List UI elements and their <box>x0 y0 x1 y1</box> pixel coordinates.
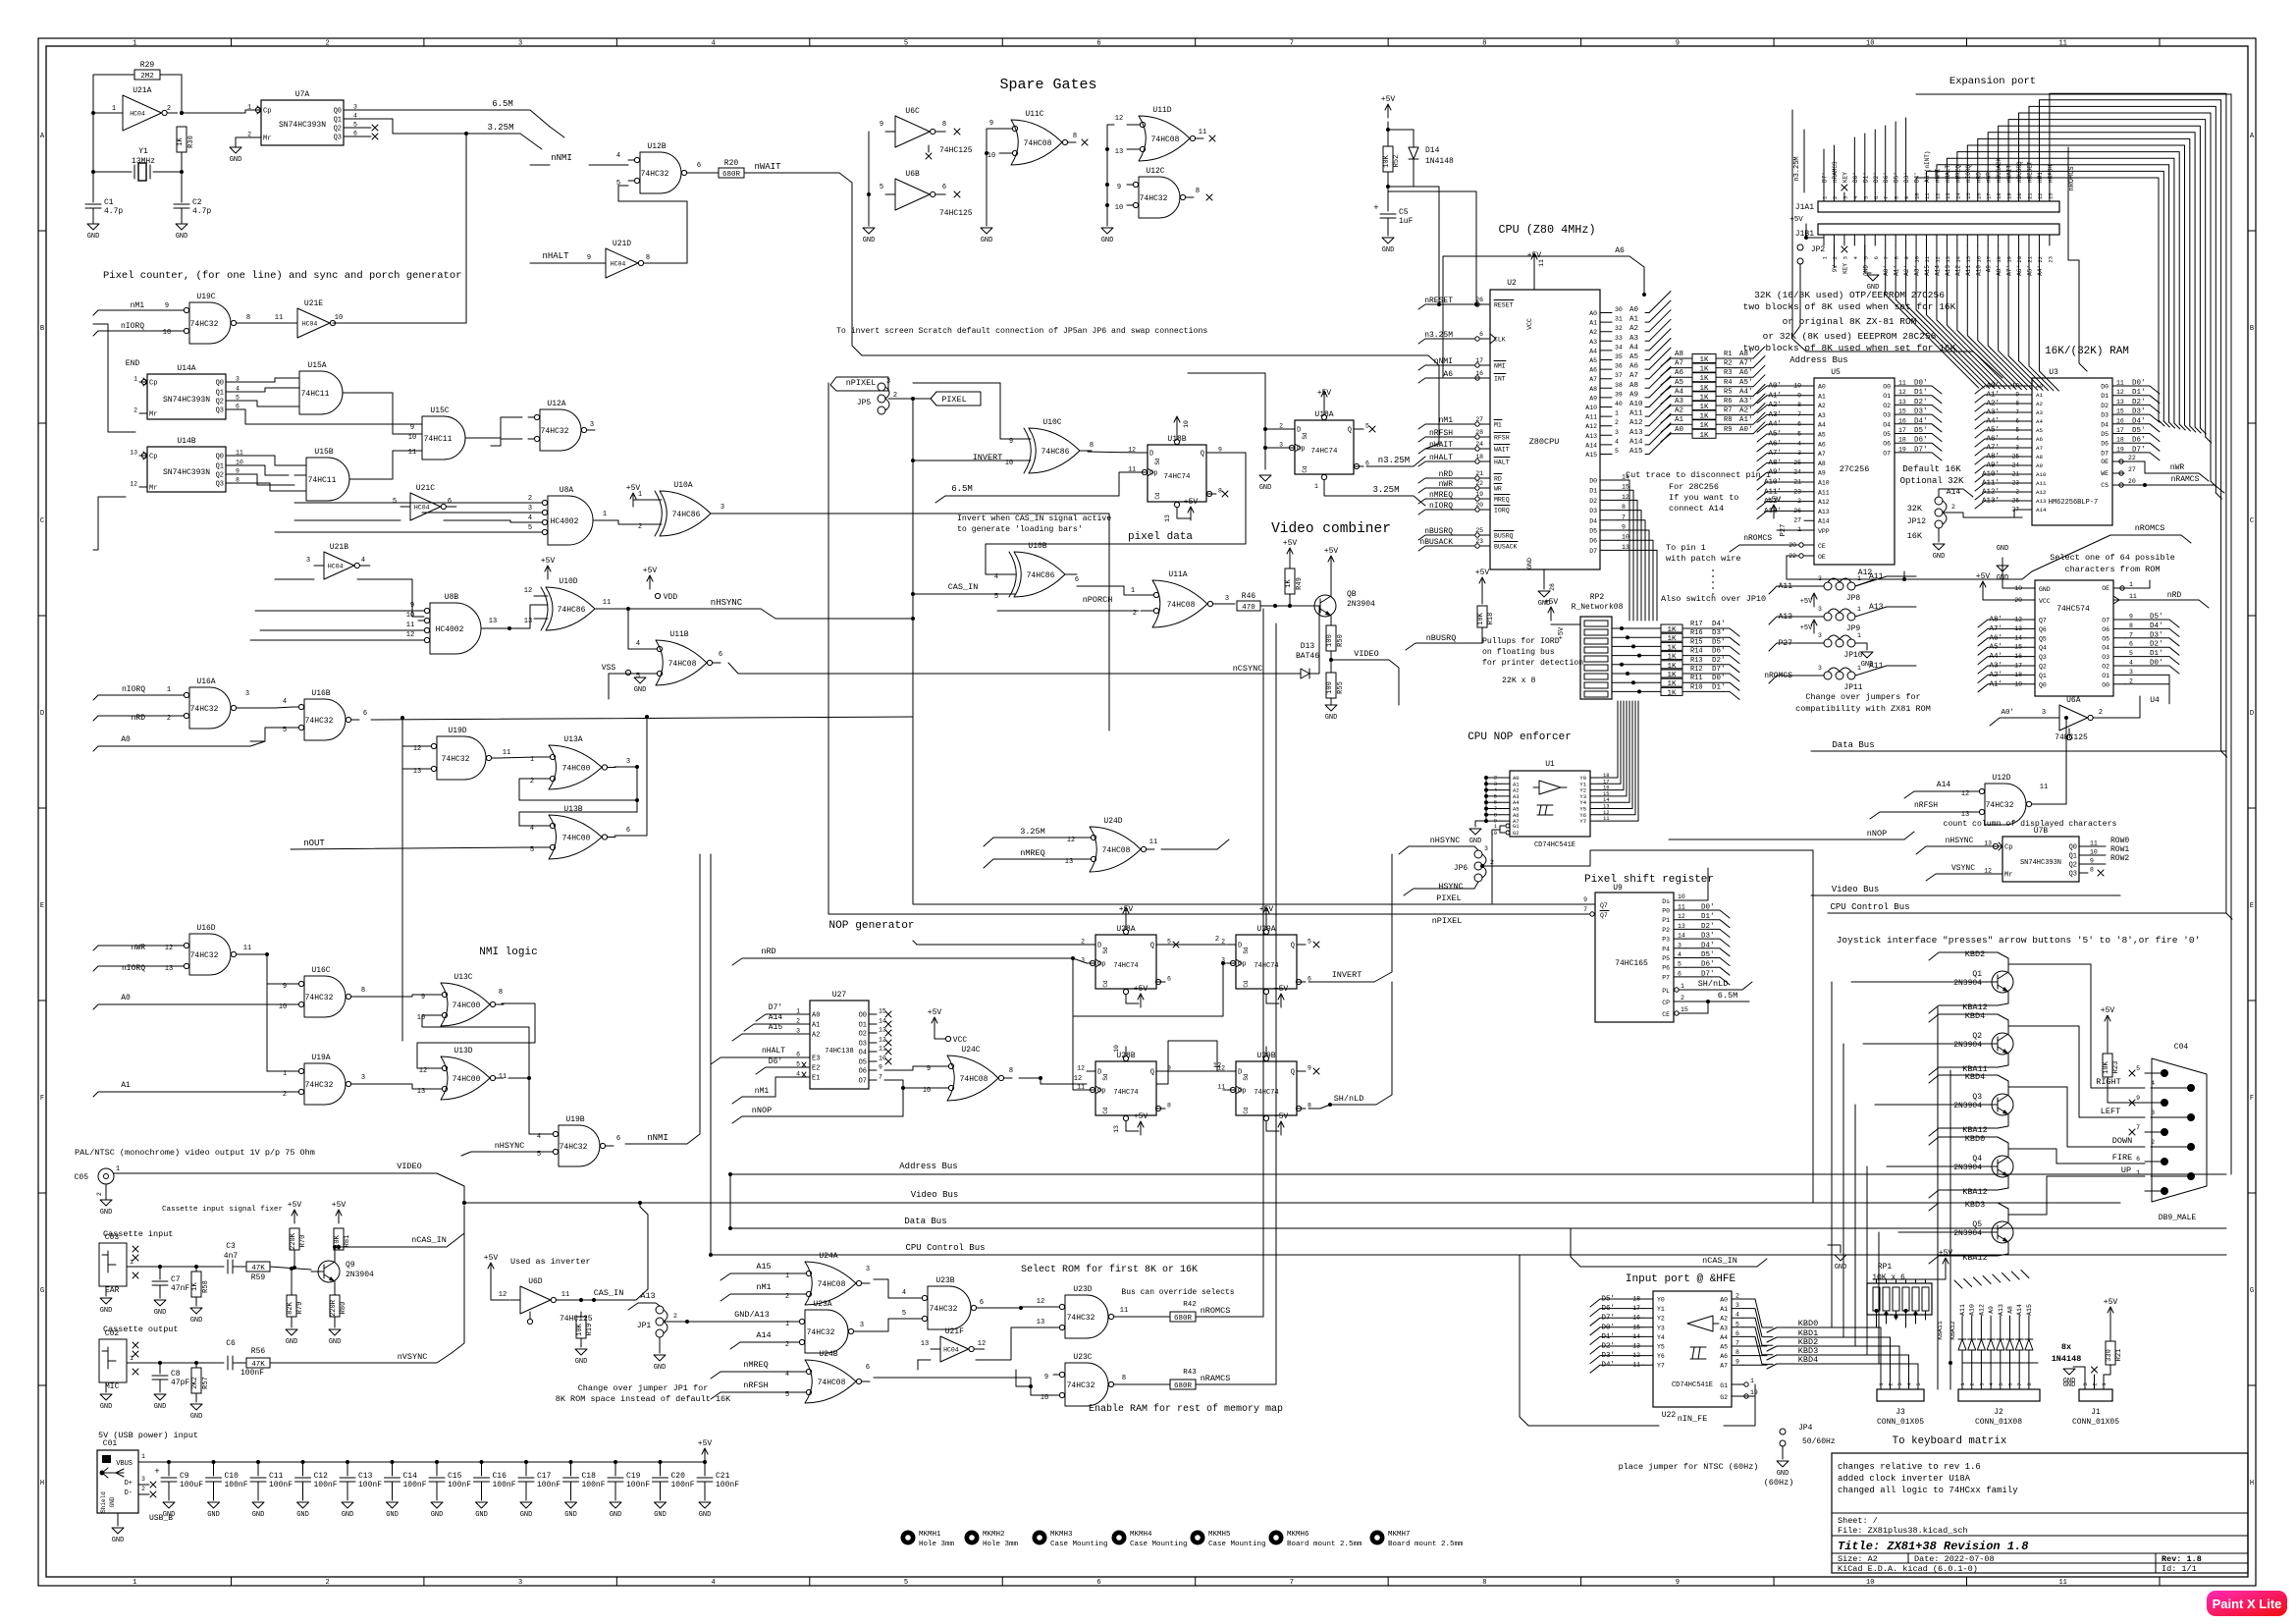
svg-text:Pixel shift register: Pixel shift register <box>1584 874 1714 886</box>
svg-text:74HC32: 74HC32 <box>541 427 569 436</box>
svg-text:Q1: Q1 <box>216 463 224 471</box>
connector C05 <box>98 1168 114 1184</box>
svg-text:6: 6 <box>448 498 452 506</box>
svg-text:U10C: U10C <box>1042 418 1061 427</box>
svg-text:1: 1 <box>1857 606 1861 613</box>
buffer U6A <box>2059 705 2088 731</box>
svg-text:3: 3 <box>866 1266 870 1273</box>
capacitor C13 <box>346 1460 349 1464</box>
svg-text:1K: 1K <box>1699 432 1709 440</box>
svg-text:A2: A2 <box>1720 1316 1728 1323</box>
U3 pin A0 <box>2022 385 2032 387</box>
U3 pin D3 <box>2112 413 2124 415</box>
svg-text:A6: A6 <box>1675 369 1684 377</box>
svg-text:HC04: HC04 <box>414 505 430 512</box>
svg-text:11: 11 <box>2090 840 2098 847</box>
U1 pin Y3 <box>1590 795 1600 797</box>
svg-text:19: 19 <box>1750 1389 1758 1396</box>
svg-text:CLK: CLK <box>1494 337 1506 344</box>
svg-text:U12A: U12A <box>547 400 565 408</box>
wire nHSYNC <box>605 608 687 610</box>
ground <box>863 228 875 234</box>
wires RP1 to J3 <box>1876 1311 1878 1327</box>
svg-text:Cp: Cp <box>263 108 271 116</box>
svg-text:OE: OE <box>1818 554 1826 561</box>
svg-text:O2: O2 <box>859 1031 867 1039</box>
svg-text:U24A: U24A <box>819 1252 837 1261</box>
svg-text:Q7: Q7 <box>2039 618 2047 624</box>
svg-text:P27: P27 <box>1780 524 1788 537</box>
svg-text:27C256: 27C256 <box>1840 464 1870 474</box>
wire <box>465 134 467 323</box>
wire nCSYNC <box>728 663 1217 674</box>
svg-text:23: 23 <box>2047 256 2054 263</box>
wire <box>1107 125 1114 226</box>
Z80 pin D0 <box>1600 479 1618 481</box>
svg-text:+5V: +5V <box>1767 496 1782 505</box>
U4 pin O4 <box>2113 646 2125 648</box>
svg-text:14: 14 <box>1678 933 1685 940</box>
J1A pin 21 <box>2028 192 2030 201</box>
svg-text:12: 12 <box>1898 389 1906 396</box>
svg-text:1: 1 <box>247 104 251 111</box>
svg-text:13: 13 <box>1622 544 1629 551</box>
power +5V <box>1263 929 1268 934</box>
svg-text:3: 3 <box>796 1028 800 1035</box>
Z80 pin A12 <box>1600 425 1612 427</box>
svg-text:6: 6 <box>719 651 722 659</box>
svg-text:A12: A12 <box>1858 568 1873 577</box>
resistor R7 <box>1692 410 1716 419</box>
svg-text:nMREQ: nMREQ <box>1954 165 1961 183</box>
svg-text:A11: A11 <box>1959 1304 1966 1316</box>
svg-text:+5V: +5V <box>1800 624 1813 632</box>
svg-text:H: H <box>2250 1480 2254 1488</box>
svg-text:A3: A3 <box>1589 339 1597 346</box>
Z80 pin A5 <box>1600 359 1612 361</box>
svg-text:2: 2 <box>1221 939 1225 946</box>
Z80 pin NMI <box>1480 364 1490 366</box>
svg-text:12: 12 <box>1077 1065 1085 1072</box>
svg-text:2: 2 <box>1888 1382 1895 1385</box>
svg-text:33: 33 <box>1615 335 1623 342</box>
or-gate U12D <box>1985 784 2026 825</box>
or-gate U19C <box>189 302 231 344</box>
svg-text:9: 9 <box>1903 196 1910 199</box>
svg-text:A1: A1 <box>1589 320 1597 327</box>
svg-text:A7: A7 <box>1720 1363 1728 1370</box>
U4 pin GND <box>2025 587 2035 589</box>
svg-text:8: 8 <box>1090 442 1094 450</box>
svg-text:22: 22 <box>2128 455 2136 461</box>
svg-text:4: 4 <box>711 40 715 48</box>
svg-text:16: 16 <box>1975 192 1982 199</box>
resistor R3 <box>1692 373 1716 382</box>
wire <box>2040 718 2066 804</box>
U4 pin OE <box>2113 587 2125 589</box>
svg-text:100: 100 <box>1326 634 1334 647</box>
svg-text:D1: D1 <box>1589 488 1597 495</box>
svg-text:O3: O3 <box>2102 654 2109 661</box>
svg-text:12: 12 <box>2116 389 2124 396</box>
inverter U21A <box>123 95 162 131</box>
svg-text:U4: U4 <box>2150 696 2160 705</box>
svg-text:A1: A1 <box>1818 393 1826 400</box>
svg-text:A2: A2 <box>812 1032 820 1040</box>
ground <box>154 1300 166 1306</box>
svg-text:GND: GND <box>176 233 188 241</box>
svg-text:10: 10 <box>163 329 171 337</box>
svg-text:U22: U22 <box>1662 1411 1677 1420</box>
svg-text:A12: A12 <box>2036 489 2047 496</box>
svg-text:A7: A7 <box>1629 372 1638 380</box>
svg-text:74HC11: 74HC11 <box>301 390 330 399</box>
J1B pin 10 <box>1915 235 1917 245</box>
svg-text:74HC125: 74HC125 <box>939 146 973 155</box>
svg-text:A4: A4 <box>1818 422 1826 429</box>
svg-text:P2: P2 <box>1662 927 1670 934</box>
J1A pin 22 <box>2038 192 2040 201</box>
svg-text:330: 330 <box>2106 1349 2113 1362</box>
svg-text:C: C <box>2250 517 2254 525</box>
Z80 pin D6 <box>1600 539 1618 541</box>
diode D14 <box>1388 130 1414 147</box>
resistor R80 <box>330 1295 340 1317</box>
svg-text:Change over jumper JP1 for: Change over jumper JP1 for <box>578 1383 709 1393</box>
svg-text:6.5M: 6.5M <box>1718 991 1737 1001</box>
svg-text:MKMH6: MKMH6 <box>1287 1531 1309 1539</box>
svg-text:C20: C20 <box>671 1472 686 1481</box>
svg-text:Q0: Q0 <box>216 454 224 461</box>
J1A pin 14 <box>1956 192 1958 201</box>
jumper JP5 <box>878 383 885 391</box>
svg-text:9: 9 <box>2090 858 2094 865</box>
svg-text:A2: A2 <box>1675 407 1683 415</box>
svg-text:3: 3 <box>1842 196 1848 199</box>
svg-text:Q0: Q0 <box>334 108 342 116</box>
J1B pin 11 <box>1926 235 1928 245</box>
svg-text:D13: D13 <box>1301 642 1315 651</box>
wire <box>1164 1070 1226 1072</box>
svg-text:6.5M: 6.5M <box>492 99 513 109</box>
connector C02 <box>99 1339 127 1382</box>
svg-text:nWAIT: nWAIT <box>754 162 781 172</box>
svg-text:Q: Q <box>1291 1069 1295 1077</box>
svg-text:3: 3 <box>2151 1110 2155 1116</box>
svg-text:27: 27 <box>2128 466 2136 473</box>
svg-text:CPU Control Bus: CPU Control Bus <box>1830 902 1909 912</box>
wires into U11B <box>628 609 644 649</box>
svg-text:H: H <box>40 1480 44 1488</box>
svg-text:NMI logic: NMI logic <box>479 947 537 958</box>
U1 pin A0 <box>1500 777 1510 779</box>
svg-text:2: 2 <box>2099 709 2103 717</box>
ground <box>1855 643 1867 650</box>
svg-text:GND: GND <box>296 1511 309 1519</box>
diode D8 <box>2028 1350 2030 1389</box>
svg-text:Q: Q <box>1201 451 1204 459</box>
svg-text:11: 11 <box>2058 1579 2066 1587</box>
svg-text:13: 13 <box>130 450 137 457</box>
U5 pin A4 <box>1804 423 1814 425</box>
svg-text:10: 10 <box>1041 1394 1048 1402</box>
capacitor C15 <box>435 1460 439 1464</box>
resistor R5 <box>1692 392 1716 401</box>
svg-text:3.25M: 3.25M <box>1020 827 1045 837</box>
svg-text:nWR: nWR <box>2170 463 2185 472</box>
svg-text:U19B: U19B <box>565 1115 584 1124</box>
or-gate U12C <box>1139 177 1180 218</box>
U4 pin Q4 <box>2025 646 2035 648</box>
svg-text:A0: A0 <box>1675 426 1684 434</box>
svg-text:R50: R50 <box>1337 634 1345 647</box>
svg-text:18: 18 <box>1475 454 1483 460</box>
svg-text:+: + <box>154 1467 159 1477</box>
svg-text:A2': A2' <box>1739 407 1753 415</box>
svg-text:Q2: Q2 <box>2039 664 2047 671</box>
svg-text:R13: R13 <box>1690 657 1703 665</box>
svg-text:12: 12 <box>130 481 137 488</box>
svg-text:VBUS: VBUS <box>116 1460 133 1468</box>
svg-text:GND: GND <box>109 1496 116 1507</box>
U9 pin PL <box>1675 988 1679 992</box>
svg-text:2K2: 2K2 <box>191 1377 199 1389</box>
resistor R50 <box>1326 625 1336 651</box>
or-gate U23D <box>1065 1295 1108 1338</box>
svg-text:+5V: +5V <box>1381 95 1396 104</box>
svg-text:E2: E2 <box>812 1065 820 1073</box>
Z80 pin A6 <box>1600 368 1612 370</box>
svg-text:GND: GND <box>100 1307 113 1315</box>
svg-text:D6': D6' <box>769 1057 782 1066</box>
wires counter to gates <box>234 378 288 382</box>
svg-text:12: 12 <box>978 1340 986 1348</box>
svg-text:GND: GND <box>981 237 993 244</box>
resistor R52 <box>1383 146 1393 172</box>
wire nRESET vertical <box>1388 191 1476 304</box>
svg-text:D1': D1' <box>1862 172 1869 183</box>
svg-text:13: 13 <box>1164 514 1171 522</box>
svg-text:74HC74: 74HC74 <box>1113 1089 1138 1097</box>
svg-text:MKMH5: MKMH5 <box>1208 1531 1231 1539</box>
svg-text:R56: R56 <box>251 1347 266 1356</box>
svg-text:6: 6 <box>1096 40 1100 48</box>
svg-text:A0': A0' <box>1739 426 1753 434</box>
svg-text:6: 6 <box>980 1299 984 1307</box>
wire <box>98 945 178 947</box>
svg-text:10: 10 <box>1914 192 1921 199</box>
svg-text:Cut trace to disconnect pin 1: Cut trace to disconnect pin 1 <box>1626 470 1771 480</box>
U22 pin Y0 <box>1643 1298 1653 1300</box>
wire nCAS_IN <box>334 1247 336 1254</box>
svg-text:PAL/NTSC (monochrome) video ou: PAL/NTSC (monochrome) video output 1V p/… <box>75 1148 315 1158</box>
svg-text:Also switch over JP10: Also switch over JP10 <box>1661 594 1766 604</box>
svg-text:A5: A5 <box>1818 432 1826 439</box>
or-gate U16B <box>304 699 346 740</box>
or-gate U23A <box>805 1310 848 1353</box>
svg-text:47pF: 47pF <box>171 1379 189 1387</box>
svg-text:A7: A7 <box>1818 451 1826 458</box>
svg-text:13: 13 <box>1115 148 1123 156</box>
svg-text:220K: 220K <box>290 1232 297 1250</box>
svg-text:Select one of 64 possible: Select one of 64 possible <box>2050 553 2175 563</box>
svg-text:1: 1 <box>1314 483 1318 490</box>
svg-text:D3: D3 <box>1589 508 1597 514</box>
svg-text:nM1: nM1 <box>131 301 145 310</box>
svg-text:R18: R18 <box>1487 613 1495 625</box>
svg-text:5: 5 <box>1167 939 1171 946</box>
svg-text:A12: A12 <box>1585 423 1597 430</box>
svg-text:2: 2 <box>2151 1139 2155 1146</box>
flip-flop U29A <box>1236 935 1297 989</box>
svg-text:3: 3 <box>1225 595 1229 603</box>
svg-text:32K: 32K <box>1907 504 1923 514</box>
svg-text:9: 9 <box>165 302 169 310</box>
svg-text:D2': D2' <box>1873 172 1880 183</box>
svg-text:U6A: U6A <box>2066 696 2081 705</box>
inverter U21E <box>297 308 330 338</box>
svg-text:U8A: U8A <box>560 486 574 495</box>
svg-text:U11A: U11A <box>1168 570 1187 579</box>
svg-text:100nF: 100nF <box>626 1481 650 1489</box>
svg-text:A14: A14 <box>2036 507 2047 514</box>
wire <box>858 1319 916 1331</box>
Z80 pin RD <box>1480 477 1490 479</box>
wire <box>874 1378 1053 1395</box>
svg-text:GND: GND <box>190 1317 203 1325</box>
svg-text:+5V: +5V <box>1283 539 1298 548</box>
svg-text:PL: PL <box>1662 988 1670 995</box>
svg-text:Q1: Q1 <box>1972 970 1982 979</box>
wire <box>359 995 429 997</box>
wire nNMI <box>625 854 700 1144</box>
svg-text:D5: D5 <box>2101 431 2109 438</box>
svg-text:2N3904: 2N3904 <box>1953 1164 1982 1172</box>
svg-text:2: 2 <box>673 1313 677 1320</box>
svg-text:6: 6 <box>2129 641 2133 648</box>
svg-text:10: 10 <box>2090 849 2098 856</box>
U3 pin D7 <box>2112 452 2124 454</box>
wire U10B out <box>1077 586 1141 595</box>
U9 pin P3 <box>1674 938 1685 940</box>
svg-text:680R: 680R <box>1174 1382 1193 1390</box>
counter U14A <box>147 374 226 419</box>
svg-text:20: 20 <box>2128 478 2136 485</box>
svg-text:Sd: Sd <box>1102 947 1109 954</box>
svg-text:680R: 680R <box>722 171 741 179</box>
svg-text:1K: 1K <box>1667 689 1677 697</box>
svg-text:3: 3 <box>721 504 724 512</box>
U9 pin CP <box>1674 1001 1685 1002</box>
svg-text:A1: A1 <box>812 1022 820 1030</box>
svg-text:R52: R52 <box>1393 155 1401 168</box>
svg-text:nRD: nRD <box>1975 172 1982 183</box>
svg-text:E: E <box>2250 902 2254 910</box>
svg-text:U14A: U14A <box>177 364 195 373</box>
svg-text:3: 3 <box>1818 632 1822 639</box>
svg-text:CD74HC541E: CD74HC541E <box>1534 841 1575 849</box>
svg-text:A9: A9 <box>1986 265 1993 273</box>
svg-text:P6: P6 <box>1662 965 1670 972</box>
svg-text:18: 18 <box>1996 256 2002 263</box>
svg-text:A14: A14 <box>756 1330 771 1340</box>
U22 pin Y6 <box>1643 1355 1653 1357</box>
svg-text:B: B <box>2250 325 2254 333</box>
svg-text:C11: C11 <box>269 1472 284 1481</box>
svg-text:VCC: VCC <box>2039 598 2051 605</box>
svg-text:2: 2 <box>1215 936 1219 944</box>
svg-text:+5V: +5V <box>1134 1112 1148 1121</box>
svg-text:Cd: Cd <box>1243 1107 1250 1114</box>
svg-text:JP2: JP2 <box>1811 245 1826 254</box>
svg-text:A14: A14 <box>1818 518 1830 525</box>
svg-text:R49: R49 <box>1296 577 1304 590</box>
svg-text:12: 12 <box>1622 494 1629 501</box>
svg-text:220R: 220R <box>330 1299 338 1317</box>
svg-text:11: 11 <box>406 622 414 629</box>
svg-text:nMREQ: nMREQ <box>743 1360 769 1370</box>
svg-text:A13: A13 <box>1945 265 1951 276</box>
U4 pin Q5 <box>2025 637 2035 639</box>
wire VIDEO <box>114 1173 464 1203</box>
nand-gate U13A <box>549 745 602 789</box>
J1B pin 2 <box>1833 235 1835 245</box>
svg-text:4: 4 <box>636 640 640 648</box>
resistor R14 <box>1661 652 1682 660</box>
svg-text:Q3: Q3 <box>216 481 224 489</box>
svg-text:U6C: U6C <box>905 107 920 116</box>
svg-text:36: 36 <box>1615 363 1623 370</box>
svg-text:U21B: U21B <box>330 543 348 552</box>
capacitor C14 <box>391 1460 395 1464</box>
svg-text:D7': D7' <box>1712 666 1726 674</box>
svg-text:74HC32: 74HC32 <box>807 1328 835 1337</box>
Z80 pin A2 <box>1600 331 1612 333</box>
port pin5 GND stub <box>1865 245 1871 273</box>
wire <box>884 1066 935 1070</box>
U3 pin A7 <box>2022 447 2032 449</box>
U5 pin O2 <box>1895 404 1906 406</box>
U4 pin O5 <box>2113 637 2125 639</box>
svg-text:CONN_01X05: CONN_01X05 <box>1877 1418 1924 1427</box>
or-gate U12A <box>540 409 581 451</box>
svg-text:+5V: +5V <box>1324 547 1339 556</box>
svg-text:17: 17 <box>1475 357 1483 364</box>
svg-text:9: 9 <box>1676 1579 1680 1587</box>
svg-text:5: 5 <box>2136 1065 2140 1072</box>
svg-text:74HC86: 74HC86 <box>672 511 701 519</box>
svg-text:changes relative to rev 1.6: changes relative to rev 1.6 <box>1838 1462 1981 1472</box>
svg-text:11: 11 <box>2129 593 2137 600</box>
svg-text:5: 5 <box>902 1310 906 1318</box>
svg-text:E3: E3 <box>812 1056 820 1063</box>
svg-text:3: 3 <box>518 40 522 48</box>
svg-text:D0': D0' <box>1712 675 1726 682</box>
U5 pin CE <box>1804 544 1814 546</box>
svg-text:added clock inverter U18A: added clock inverter U18A <box>1838 1474 1971 1484</box>
svg-text:GND: GND <box>575 1358 588 1366</box>
svg-text:C05: C05 <box>75 1173 89 1182</box>
svg-text:U10D: U10D <box>559 577 577 586</box>
svg-text:G: G <box>40 1287 44 1295</box>
svg-text:P1: P1 <box>1662 917 1670 924</box>
U1 pin Y1 <box>1590 783 1600 785</box>
svg-text:11: 11 <box>1924 192 1931 199</box>
U5 pin OE <box>1804 555 1814 557</box>
svg-text:74HC00: 74HC00 <box>562 765 591 774</box>
svg-text:A2: A2 <box>2036 401 2043 407</box>
J1A pin 20 <box>2018 192 2020 201</box>
